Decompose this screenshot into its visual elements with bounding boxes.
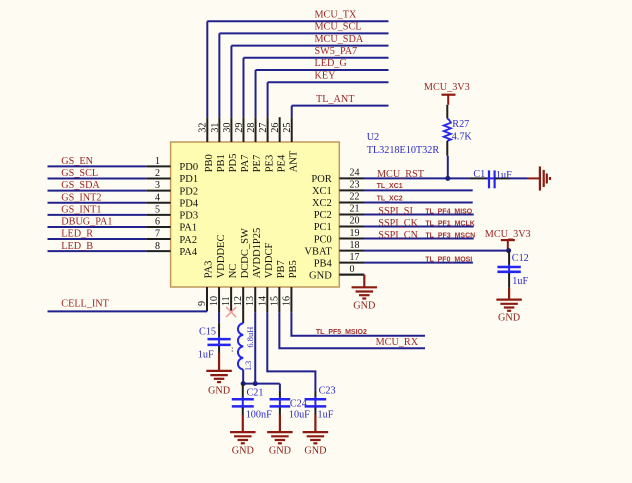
svg-text:LED_R: LED_R	[61, 229, 93, 240]
svg-text:32: 32	[198, 123, 209, 133]
svg-text:GND: GND	[353, 301, 375, 312]
svg-text:MCU_TX: MCU_TX	[315, 9, 358, 20]
svg-text:PD2: PD2	[179, 186, 198, 197]
svg-text:PB7: PB7	[276, 260, 287, 278]
svg-text:PD5: PD5	[228, 154, 239, 173]
svg-text:MCU_RX: MCU_RX	[376, 337, 419, 348]
svg-text:29: 29	[234, 123, 245, 133]
svg-text:MCU_SDA: MCU_SDA	[315, 34, 364, 45]
svg-text:21: 21	[350, 204, 360, 215]
svg-text:VDDCF: VDDCF	[264, 243, 275, 279]
svg-text:GND: GND	[208, 385, 230, 396]
svg-text:6.8uH: 6.8uH	[245, 327, 255, 348]
svg-text:PB0: PB0	[204, 154, 215, 172]
svg-text:PE3: PE3	[264, 155, 275, 173]
svg-text:L3: L3	[243, 361, 253, 370]
svg-text:MCU_3V3: MCU_3V3	[485, 229, 531, 240]
svg-text:22: 22	[350, 192, 360, 203]
svg-text:C1: C1	[473, 169, 485, 180]
svg-text:3: 3	[155, 180, 160, 191]
svg-text:ANT: ANT	[288, 150, 299, 172]
svg-text:GS_EN: GS_EN	[61, 156, 93, 167]
svg-text:PB1: PB1	[216, 154, 227, 172]
svg-text:TL_PF1_MCLK: TL_PF1_MCLK	[425, 220, 474, 227]
svg-text:TL_ANT: TL_ANT	[316, 94, 355, 105]
svg-text:23: 23	[350, 180, 360, 191]
svg-text:0: 0	[350, 264, 355, 275]
svg-text:U2: U2	[367, 132, 379, 143]
svg-text:PE4: PE4	[276, 154, 287, 172]
svg-text:1: 1	[155, 156, 160, 167]
svg-text:18: 18	[350, 240, 360, 251]
svg-text:VBAT: VBAT	[304, 246, 332, 257]
svg-text:PE7: PE7	[252, 155, 263, 173]
svg-text:TL_PF5_MSIO2: TL_PF5_MSIO2	[316, 329, 367, 336]
svg-text:24: 24	[350, 168, 360, 179]
svg-text:GS_INT1: GS_INT1	[61, 204, 101, 215]
svg-text:PD3: PD3	[179, 211, 198, 222]
svg-text:KEY: KEY	[315, 70, 337, 81]
svg-text:10uF: 10uF	[289, 410, 310, 421]
svg-text:MCU_SCL: MCU_SCL	[315, 22, 362, 33]
svg-text:2: 2	[155, 168, 160, 179]
svg-text:PA1: PA1	[179, 223, 197, 234]
svg-text:MCU_RST: MCU_RST	[377, 169, 425, 180]
svg-text:C21: C21	[247, 388, 264, 399]
svg-text:POR: POR	[311, 174, 331, 185]
svg-text:27: 27	[258, 123, 269, 133]
svg-text:TL3218E10T32R: TL3218E10T32R	[367, 145, 440, 156]
svg-text:VDDDEC: VDDDEC	[216, 235, 227, 279]
svg-text:1uF: 1uF	[318, 410, 334, 421]
svg-text:8: 8	[155, 241, 160, 252]
svg-text:GND: GND	[232, 446, 254, 457]
svg-text:XC1: XC1	[312, 186, 332, 197]
svg-text:PA4: PA4	[179, 247, 197, 258]
svg-text:PC2: PC2	[314, 210, 332, 221]
svg-text:1uF: 1uF	[512, 276, 528, 287]
svg-text:PD4: PD4	[179, 198, 198, 209]
svg-text:28: 28	[246, 123, 257, 133]
svg-text:NC: NC	[228, 264, 239, 279]
svg-text:AVDD1P25: AVDD1P25	[252, 228, 263, 279]
svg-text:6: 6	[155, 217, 160, 228]
svg-text:PB5: PB5	[288, 260, 299, 278]
svg-text:SSPI_CK: SSPI_CK	[378, 218, 418, 229]
svg-text:PA3: PA3	[204, 261, 215, 279]
svg-text:C15: C15	[199, 326, 216, 337]
svg-text:4: 4	[155, 192, 160, 203]
svg-text:7: 7	[155, 229, 160, 240]
svg-text:PC1: PC1	[314, 222, 332, 233]
svg-text:LED_G: LED_G	[315, 58, 348, 69]
svg-text:100nF: 100nF	[246, 410, 272, 421]
svg-text:1uF: 1uF	[496, 170, 512, 181]
svg-text:19: 19	[350, 228, 360, 239]
svg-text:C12: C12	[512, 253, 529, 264]
svg-text:GND: GND	[309, 270, 332, 281]
svg-text:SW5_PA7: SW5_PA7	[315, 46, 358, 57]
svg-text:C23: C23	[319, 386, 336, 397]
svg-text:R27: R27	[452, 119, 469, 130]
svg-text:GS_INT2: GS_INT2	[61, 192, 101, 203]
svg-text:SSPI_CN: SSPI_CN	[378, 230, 418, 241]
svg-text:DCDC_SW: DCDC_SW	[240, 228, 251, 278]
svg-text:DBUG_PA1: DBUG_PA1	[61, 217, 112, 228]
svg-text:TL_PF3_MSCN: TL_PF3_MSCN	[425, 232, 475, 239]
svg-text:26: 26	[270, 123, 281, 133]
svg-text:GND: GND	[304, 446, 326, 457]
svg-text:MCU_3V3: MCU_3V3	[424, 82, 470, 93]
svg-text:GND: GND	[498, 312, 520, 323]
svg-text:CELL_INT: CELL_INT	[61, 299, 109, 310]
svg-text:PD0: PD0	[179, 162, 198, 173]
svg-text:PA7: PA7	[240, 155, 251, 173]
svg-text:20: 20	[350, 216, 360, 227]
svg-text:5: 5	[155, 204, 160, 215]
svg-text:TL_XC1: TL_XC1	[377, 183, 403, 190]
svg-text:PC0: PC0	[314, 234, 332, 245]
svg-text:PB4: PB4	[314, 258, 333, 269]
svg-text:SSPI_SI: SSPI_SI	[378, 206, 413, 217]
svg-text:17: 17	[350, 252, 360, 263]
svg-text:4.7K: 4.7K	[452, 131, 473, 142]
svg-text:TL_PF0_MOSI: TL_PF0_MOSI	[425, 256, 472, 263]
svg-text:30: 30	[222, 123, 233, 133]
svg-text:25: 25	[282, 123, 293, 133]
svg-text:TL_PF4_MISO: TL_PF4_MISO	[425, 208, 473, 215]
svg-text:C24: C24	[290, 398, 307, 409]
svg-text:GND: GND	[269, 446, 291, 457]
svg-text:LED_B: LED_B	[61, 241, 93, 252]
svg-text:XC2: XC2	[312, 198, 332, 209]
svg-text:PD1: PD1	[179, 174, 198, 185]
svg-text:GS_SCL: GS_SCL	[61, 168, 98, 179]
svg-text:TL_XC2: TL_XC2	[377, 195, 403, 202]
svg-text:GS_SDA: GS_SDA	[61, 180, 100, 191]
svg-text:31: 31	[210, 123, 221, 133]
svg-text:PA2: PA2	[179, 235, 197, 246]
svg-text:1uF: 1uF	[198, 350, 214, 361]
